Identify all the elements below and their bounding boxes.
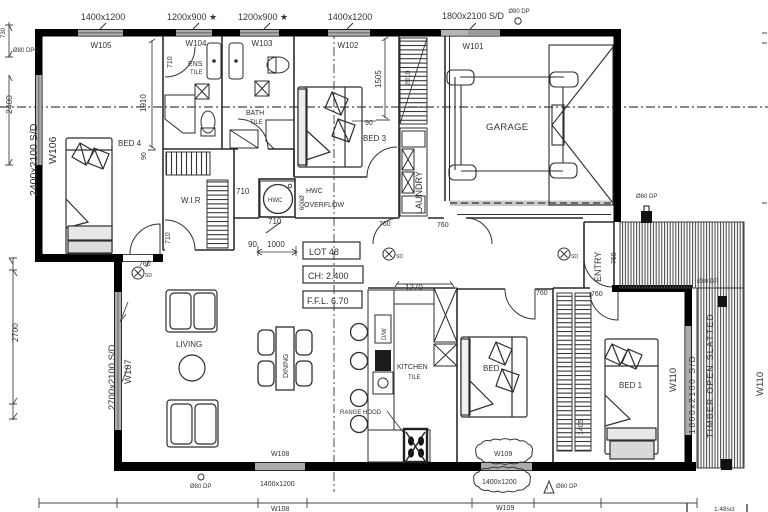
wall garage east [614, 29, 622, 222]
svg-text:760: 760 [536, 290, 548, 297]
door arc ens [165, 47, 195, 77]
deck timber slatted [620, 222, 744, 288]
wall bed3 south [294, 149, 367, 177]
svg-text:1910: 1910 [139, 94, 148, 112]
svg-text:710: 710 [236, 187, 250, 196]
door stub living entry [153, 254, 163, 262]
svg-text:Ø80 DP: Ø80 DP [556, 484, 577, 490]
robe hatch wir top [166, 152, 210, 175]
svg-text:760: 760 [379, 221, 391, 228]
dim line 1270 [395, 281, 454, 287]
door arc entry [584, 258, 613, 287]
svg-text:ENTRY: ENTRY [593, 252, 603, 282]
svg-text:90: 90 [248, 240, 257, 249]
wall hall north segment [234, 217, 399, 219]
svg-text:CH: 2.400: CH: 2.400 [308, 271, 349, 281]
svg-text:760: 760 [139, 261, 151, 268]
downpipe square deck south [721, 459, 732, 470]
car garage [447, 45, 613, 205]
door arc bed4 [130, 224, 160, 254]
lot info boxes [303, 242, 363, 308]
svg-text:W106: W106 [47, 136, 59, 164]
smoke detector entry hall [558, 248, 570, 260]
svg-text:W110: W110 [668, 368, 679, 392]
dining table [258, 327, 312, 390]
linen hatch hall [400, 38, 427, 124]
svg-text:LAUNDRY: LAUNDRY [414, 171, 424, 214]
wall bed north [457, 288, 553, 290]
wall ens-bath south [163, 148, 294, 150]
hwc circle [260, 181, 295, 233]
svg-text:W103: W103 [252, 39, 273, 48]
svg-text:1270: 1270 [405, 283, 423, 292]
kitchen stove block [375, 350, 391, 371]
window ticks top [100, 23, 476, 29]
wall entry west [583, 222, 585, 288]
wall rwc box [259, 179, 295, 217]
door arc bed mid [505, 289, 535, 319]
window W103 [240, 30, 279, 36]
svg-text:HWC: HWC [268, 198, 283, 204]
svg-text:LOT 48: LOT 48 [309, 247, 339, 257]
wall left exterior [35, 29, 43, 262]
window W107 [115, 292, 122, 430]
ens fixtures [165, 43, 221, 136]
wall wir south [163, 249, 234, 251]
svg-text:W102: W102 [338, 41, 359, 50]
bed 3 [298, 87, 362, 167]
wall bath east [293, 36, 295, 176]
svg-text:W108: W108 [271, 506, 289, 512]
wall entry east [613, 222, 615, 285]
window W108 [255, 463, 305, 471]
bottom dimension line [39, 498, 697, 508]
svg-text:BED 3: BED 3 [363, 134, 387, 143]
svg-text:TILE: TILE [408, 375, 421, 381]
svg-text:1400x1200: 1400x1200 [482, 479, 517, 486]
svg-text:1200x900 ★: 1200x900 ★ [167, 12, 217, 22]
window W105 [78, 30, 123, 36]
wall entry north [584, 221, 614, 223]
svg-text:OVERFLOW: OVERFLOW [304, 202, 344, 209]
svg-text:710: 710 [167, 56, 174, 68]
svg-text:1000: 1000 [267, 240, 285, 249]
linen diagonal [400, 38, 427, 124]
svg-text:1400x1200: 1400x1200 [260, 481, 295, 488]
svg-text:LIVING: LIVING [176, 340, 202, 349]
wall bed1 north [612, 285, 691, 292]
svg-text:W101: W101 [463, 42, 484, 51]
svg-text:90: 90 [141, 152, 148, 160]
svg-text:TILE: TILE [250, 120, 263, 126]
centerline vertical [333, 30, 335, 492]
door arc bed1 [590, 292, 618, 320]
svg-text:2400x2100 S/D: 2400x2100 S/D [28, 123, 40, 196]
svg-text:D/W: D/W [382, 328, 388, 340]
downpipe square deck north [641, 211, 652, 223]
svg-text:1800x2100 S/D: 1800x2100 S/D [687, 355, 697, 434]
svg-text:W105: W105 [91, 41, 112, 50]
bath fixtures [229, 43, 294, 149]
downpipe square deck east [718, 296, 727, 307]
svg-text:DINING: DINING [283, 354, 290, 379]
svg-text:600Ø: 600Ø [300, 195, 306, 210]
svg-text:2700x2100 S/D: 2700x2100 S/D [107, 344, 118, 410]
svg-text:BED: BED [483, 364, 500, 373]
bed mid [461, 337, 527, 417]
wall wir east [233, 149, 235, 250]
svg-text:Ø80 DP: Ø80 DP [190, 484, 211, 490]
garage door [450, 201, 611, 207]
robe hatch bed1 [575, 293, 591, 451]
wall bed4 south [35, 254, 123, 262]
svg-text:F.F.L. 6.70: F.F.L. 6.70 [307, 296, 349, 306]
wall kitchen-bed divider [456, 288, 458, 462]
window W104 [176, 30, 212, 36]
wall bed4 east [162, 36, 164, 250]
wall bed1 east [685, 285, 693, 471]
wall hall-garage south [428, 217, 583, 219]
robe hatch bed mid [557, 293, 572, 451]
wall garage west [444, 36, 446, 201]
svg-text:W108: W108 [271, 451, 289, 458]
right margin ticks [762, 33, 767, 203]
dim line 1505 [376, 37, 390, 120]
wall kitchen north [368, 287, 455, 289]
svg-text:760: 760 [611, 252, 618, 264]
door arc laundry hall [373, 218, 399, 244]
svg-text:W110: W110 [755, 372, 766, 396]
wall living west [114, 254, 122, 471]
robe hatch wir east [207, 180, 228, 248]
dp triangle [544, 481, 554, 493]
wall ens/bath divider [221, 36, 223, 149]
window W101 [441, 30, 500, 36]
wall top exterior [35, 29, 621, 37]
svg-text:710: 710 [268, 217, 282, 226]
svg-text:2700: 2700 [10, 323, 20, 342]
wall linen west [398, 36, 400, 218]
svg-text:TILE: TILE [190, 70, 203, 76]
svg-text:W109: W109 [496, 505, 514, 512]
svg-text:1800x2100 S/D: 1800x2100 S/D [442, 11, 505, 21]
svg-text:Ø80 DP: Ø80 DP [636, 194, 657, 200]
wall bed east [552, 288, 554, 462]
svg-text:SD: SD [145, 273, 152, 279]
svg-text:W104: W104 [186, 39, 207, 48]
svg-text:710: 710 [165, 232, 172, 244]
svg-text:GARAGE: GARAGE [486, 122, 528, 133]
smoke detector living [132, 260, 149, 279]
svg-text:ENS: ENS [188, 61, 203, 68]
svg-text:BED 1: BED 1 [619, 381, 643, 390]
window W106 [36, 75, 42, 165]
sofa bottom living [167, 400, 218, 447]
window W102 [328, 30, 370, 36]
slide arrows W107 [120, 302, 128, 382]
svg-text:Ø80 DPO: Ø80 DPO [13, 48, 39, 54]
svg-text:SD: SD [396, 254, 403, 260]
bed 4 [66, 138, 112, 254]
sofa top living [166, 290, 217, 332]
kitchen bench [368, 288, 457, 462]
left dimension line [5, 22, 17, 420]
wall bottom exterior [114, 462, 696, 471]
svg-text:Ø80 DP: Ø80 DP [697, 279, 718, 285]
svg-text:KITCHEN: KITCHEN [397, 364, 428, 371]
cooktop [404, 429, 427, 462]
svg-text:1400x1200: 1400x1200 [328, 12, 373, 22]
svg-text:1400x1200: 1400x1200 [81, 12, 126, 22]
svg-text:TIMBER OPEN SLATTED: TIMBER OPEN SLATTED [705, 313, 715, 438]
door arc bed3 [367, 147, 397, 177]
svg-text:W.I.R: W.I.R [181, 196, 201, 205]
window W110 [685, 326, 691, 435]
centerline horizontal [0, 106, 768, 108]
svg-text:BATH: BATH [246, 110, 264, 117]
svg-text:!: ! [547, 487, 548, 493]
door arc wir [165, 220, 195, 250]
window W109 [481, 463, 532, 471]
laundry unit [400, 128, 427, 216]
svg-text:Ø80 DP: Ø80 DP [508, 9, 529, 15]
dim line 1910 [148, 39, 156, 150]
coffee table [179, 355, 205, 381]
range hood circles [351, 324, 368, 433]
svg-text:SD: SD [571, 254, 578, 260]
door arc bath [238, 119, 268, 149]
bed 1 [605, 339, 658, 459]
svg-text:1405: 1405 [578, 419, 585, 435]
svg-text:W109: W109 [494, 451, 512, 458]
svg-text:RANGE HOOD: RANGE HOOD [340, 410, 382, 416]
svg-text:BED 4: BED 4 [118, 139, 142, 148]
wall robes-hall north [553, 287, 590, 289]
svg-text:1200x900 ★: 1200x900 ★ [238, 12, 288, 22]
svg-text:W107: W107 [123, 359, 134, 384]
svg-text:1505: 1505 [374, 70, 383, 88]
svg-text:760: 760 [437, 222, 449, 229]
door arc garage hall [466, 218, 492, 244]
svg-text:730: 730 [1, 27, 7, 38]
svg-text:HWC: HWC [306, 188, 323, 195]
svg-text:1:48scl: 1:48scl [714, 506, 735, 512]
svg-text:2010: 2010 [405, 70, 412, 86]
cloud W109 [474, 439, 533, 493]
svg-text:760: 760 [591, 291, 603, 298]
smoke detector hall [383, 248, 395, 260]
